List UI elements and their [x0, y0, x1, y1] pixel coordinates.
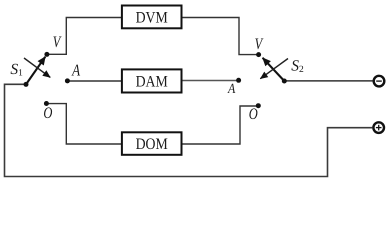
terminal plus [373, 122, 384, 133]
svg-text:A: A [71, 60, 81, 79]
switch S2 motion arrow [260, 59, 288, 79]
node: S2 pivot [282, 79, 287, 84]
node V1 [44, 52, 49, 57]
svg-text:DVM: DVM [136, 10, 168, 27]
wire: DVM right to V2 contact [183, 18, 259, 55]
svg-text:O: O [43, 105, 52, 122]
node O2 [256, 103, 261, 108]
node A2 [236, 78, 241, 83]
wire: A1 contact to DAM left [67, 80, 121, 82]
wire: DAM right to A2 contact [183, 80, 239, 82]
wire: V1 contact to DVM left [47, 18, 121, 55]
switch S1 motion arrow [24, 58, 50, 77]
wire: S1 pivot to left rail, bottom rail, up to plus terminal [5, 84, 373, 176]
node V2 [256, 52, 261, 57]
node: S1 pivot [24, 82, 29, 87]
wire: DOM right to O2 contact [183, 106, 259, 144]
node A1 [65, 78, 70, 83]
svg-text:DOM: DOM [136, 136, 168, 153]
terminal minus [374, 76, 385, 87]
switch S1 arm (pivot to V, arrowhead) [26, 57, 45, 85]
svg-text:O: O [249, 106, 258, 123]
switch S2 arm (pivot to V, arrowhead) [263, 58, 285, 81]
svg-text:DAM: DAM [136, 74, 168, 91]
svg-text:A: A [227, 82, 236, 97]
box DOM [122, 132, 182, 155]
wire: S2 pivot to minus terminal [284, 80, 372, 82]
box DVM [122, 6, 182, 29]
wire: O1 contact to DOM left [46, 104, 121, 144]
box DAM [122, 69, 182, 92]
node O1 [44, 101, 49, 106]
